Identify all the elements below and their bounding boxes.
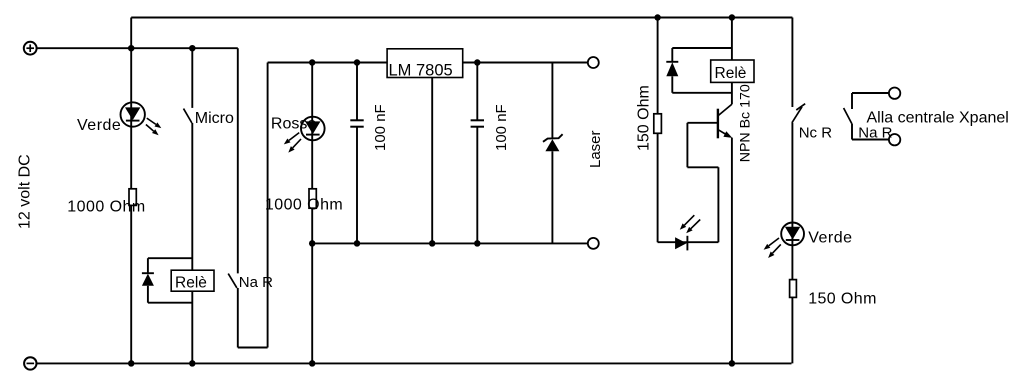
node junction ground / micro branch — [189, 360, 196, 367]
resistor R3 150 Ohm — [654, 114, 662, 134]
svg-text:150 Ohm: 150 Ohm — [808, 290, 877, 307]
node junction 5V rail / Rosso — [309, 59, 316, 66]
wire NaR loop bottom — [238, 347, 268, 349]
label Laser — [587, 130, 604, 168]
terminal Xpanel bottom — [889, 134, 900, 145]
svg-text:100 nF: 100 nF — [493, 104, 510, 151]
svg-text:NPN Bc 170: NPN Bc 170 — [738, 84, 754, 162]
wire micro branch upper — [191, 48, 193, 108]
svg-text:Laser: Laser — [587, 130, 604, 168]
svg-text:1000 Ohm: 1000 Ohm — [67, 199, 145, 216]
node junction 5V rail / C1 — [354, 59, 361, 66]
node junction positive rail / micro branch — [189, 45, 196, 52]
svg-text:Verde: Verde — [77, 117, 121, 134]
photodiode D5 — [675, 215, 700, 250]
label 150 Ohm right — [808, 290, 877, 307]
node junction top rail / relay branch — [729, 14, 736, 21]
svg-text:100 nF: 100 nF — [372, 104, 389, 151]
svg-text:Rosso: Rosso — [271, 116, 316, 133]
wire NaR-right bottom — [852, 139, 889, 141]
label Verde — [77, 117, 121, 134]
wire NaR-left branch lower — [237, 288, 239, 348]
wire collector riser — [731, 82, 733, 104]
relay coil K1 Relè left box — [171, 270, 214, 291]
resistor R4 150 Ohm — [790, 280, 797, 298]
label Na R left — [239, 274, 273, 291]
label 12 volt DC — [17, 154, 34, 229]
node junction 0V rail / 7805 gnd — [429, 240, 436, 247]
label 100 nF C1 — [372, 104, 389, 151]
label Verde right — [808, 229, 852, 246]
diode D6 flyback right — [666, 48, 678, 93]
label Rosso — [271, 116, 316, 133]
relay coil K2 Relè right box — [711, 60, 754, 82]
LED D3 Rosso — [284, 117, 325, 153]
wire flyback bottom — [672, 92, 732, 94]
wire micro branch lower — [191, 123, 193, 363]
svg-text:1000 Ohm: 1000 Ohm — [265, 196, 343, 213]
switch Nc R stop tick — [796, 104, 805, 110]
wire NaR-right upper stub — [851, 93, 853, 109]
wire photodiode row — [658, 241, 719, 243]
wire emitter drop — [731, 138, 733, 364]
node junction 0V rail / C2 — [474, 240, 481, 247]
capacitor C1 100 nF — [350, 63, 363, 244]
switch Na R left blade — [228, 274, 237, 288]
wire 150Ohm branch — [657, 18, 659, 243]
terminal laser output top — [588, 57, 599, 68]
node junction ground / emitter — [729, 360, 736, 367]
wire NcR branch lower — [791, 123, 793, 364]
label Alla centrale Xpanel — [867, 110, 1009, 127]
capacitor C2 100 nF — [471, 63, 484, 244]
transistor Q1 NPN Bc 170 — [718, 104, 732, 138]
svg-text:150 Ohm: 150 Ohm — [636, 85, 653, 151]
svg-text:Alla centrale Xpanel: Alla centrale Xpanel — [867, 110, 1009, 127]
switch Na R right blade — [844, 108, 852, 124]
switch Micro blade — [184, 109, 192, 123]
switch Nc R blade — [792, 107, 802, 123]
wire relay parallel bottom — [148, 302, 192, 304]
regulator U1 LM 7805 box — [387, 49, 463, 80]
svg-text:LM 7805: LM 7805 — [389, 61, 453, 79]
svg-text:Relè: Relè — [175, 275, 207, 292]
wire NaR-right lower stub — [851, 124, 853, 140]
wire NaR-left branch upper — [237, 48, 239, 273]
svg-text:Micro: Micro — [195, 110, 234, 127]
svg-text:Verde: Verde — [808, 229, 852, 246]
wire 0V middle rail — [312, 242, 588, 244]
terminal laser output bottom — [588, 238, 599, 249]
node junction 0V rail / Rosso — [309, 240, 316, 247]
label Micro — [195, 110, 234, 127]
label Rele right — [715, 65, 747, 82]
diode D4 laser (zener) — [543, 63, 563, 244]
terminal - negative supply — [24, 357, 36, 369]
wire base network bottom — [687, 166, 718, 168]
diode D2 flyback left — [142, 258, 154, 303]
wire relay right feed — [731, 18, 733, 61]
wire positive rail — [36, 47, 237, 49]
node junction ground / Rosso branch — [309, 360, 316, 367]
LED D7 Verde right — [764, 223, 804, 259]
label 1000 Ohm left — [67, 199, 145, 216]
label Na R right — [858, 124, 892, 141]
label Nc R — [799, 124, 833, 141]
label 1000 Ohm right — [265, 196, 343, 213]
node junction ground / LED branch — [128, 360, 135, 367]
resistor R1 1000 Ohm — [129, 189, 136, 206]
svg-text:Relè: Relè — [715, 65, 747, 82]
svg-text:Na R: Na R — [858, 124, 892, 141]
wire NaR-right top — [852, 92, 889, 94]
label 150 Ohm vertical — [636, 85, 653, 151]
wire base lead — [687, 122, 718, 124]
wire flyback top — [672, 47, 732, 49]
node junction positive rail / LED branch — [128, 45, 135, 52]
wire Rosso branch — [311, 63, 313, 364]
node junction 0V rail / C1 — [354, 240, 361, 247]
label 100 nF C2 — [493, 104, 510, 151]
wire 7805 ground pin — [431, 78, 433, 244]
wire base network riser left — [686, 123, 688, 168]
label Rele left — [175, 275, 207, 292]
svg-text:12 volt DC: 12 volt DC — [17, 154, 34, 229]
label NPN Bc 170 — [738, 84, 754, 162]
resistor R2 1000 Ohm — [309, 189, 316, 208]
wire left LED branch — [130, 18, 132, 364]
LED D1 Verde — [121, 102, 162, 135]
terminal + positive supply — [24, 42, 37, 55]
wire 5V input rail — [268, 62, 588, 64]
node junction top rail / 150Ohm branch — [654, 14, 661, 21]
svg-text:Nc R: Nc R — [799, 124, 833, 141]
terminal Xpanel top — [889, 88, 900, 99]
wire bottom rail (ground) — [37, 362, 792, 364]
wire base network riser right — [717, 167, 719, 242]
wire relay parallel top — [148, 257, 192, 259]
wire NcR branch upper — [791, 18, 793, 108]
node junction 5V rail / C2 — [474, 59, 481, 66]
wire top rail — [131, 17, 792, 19]
wire NaR loop riser — [267, 63, 269, 348]
